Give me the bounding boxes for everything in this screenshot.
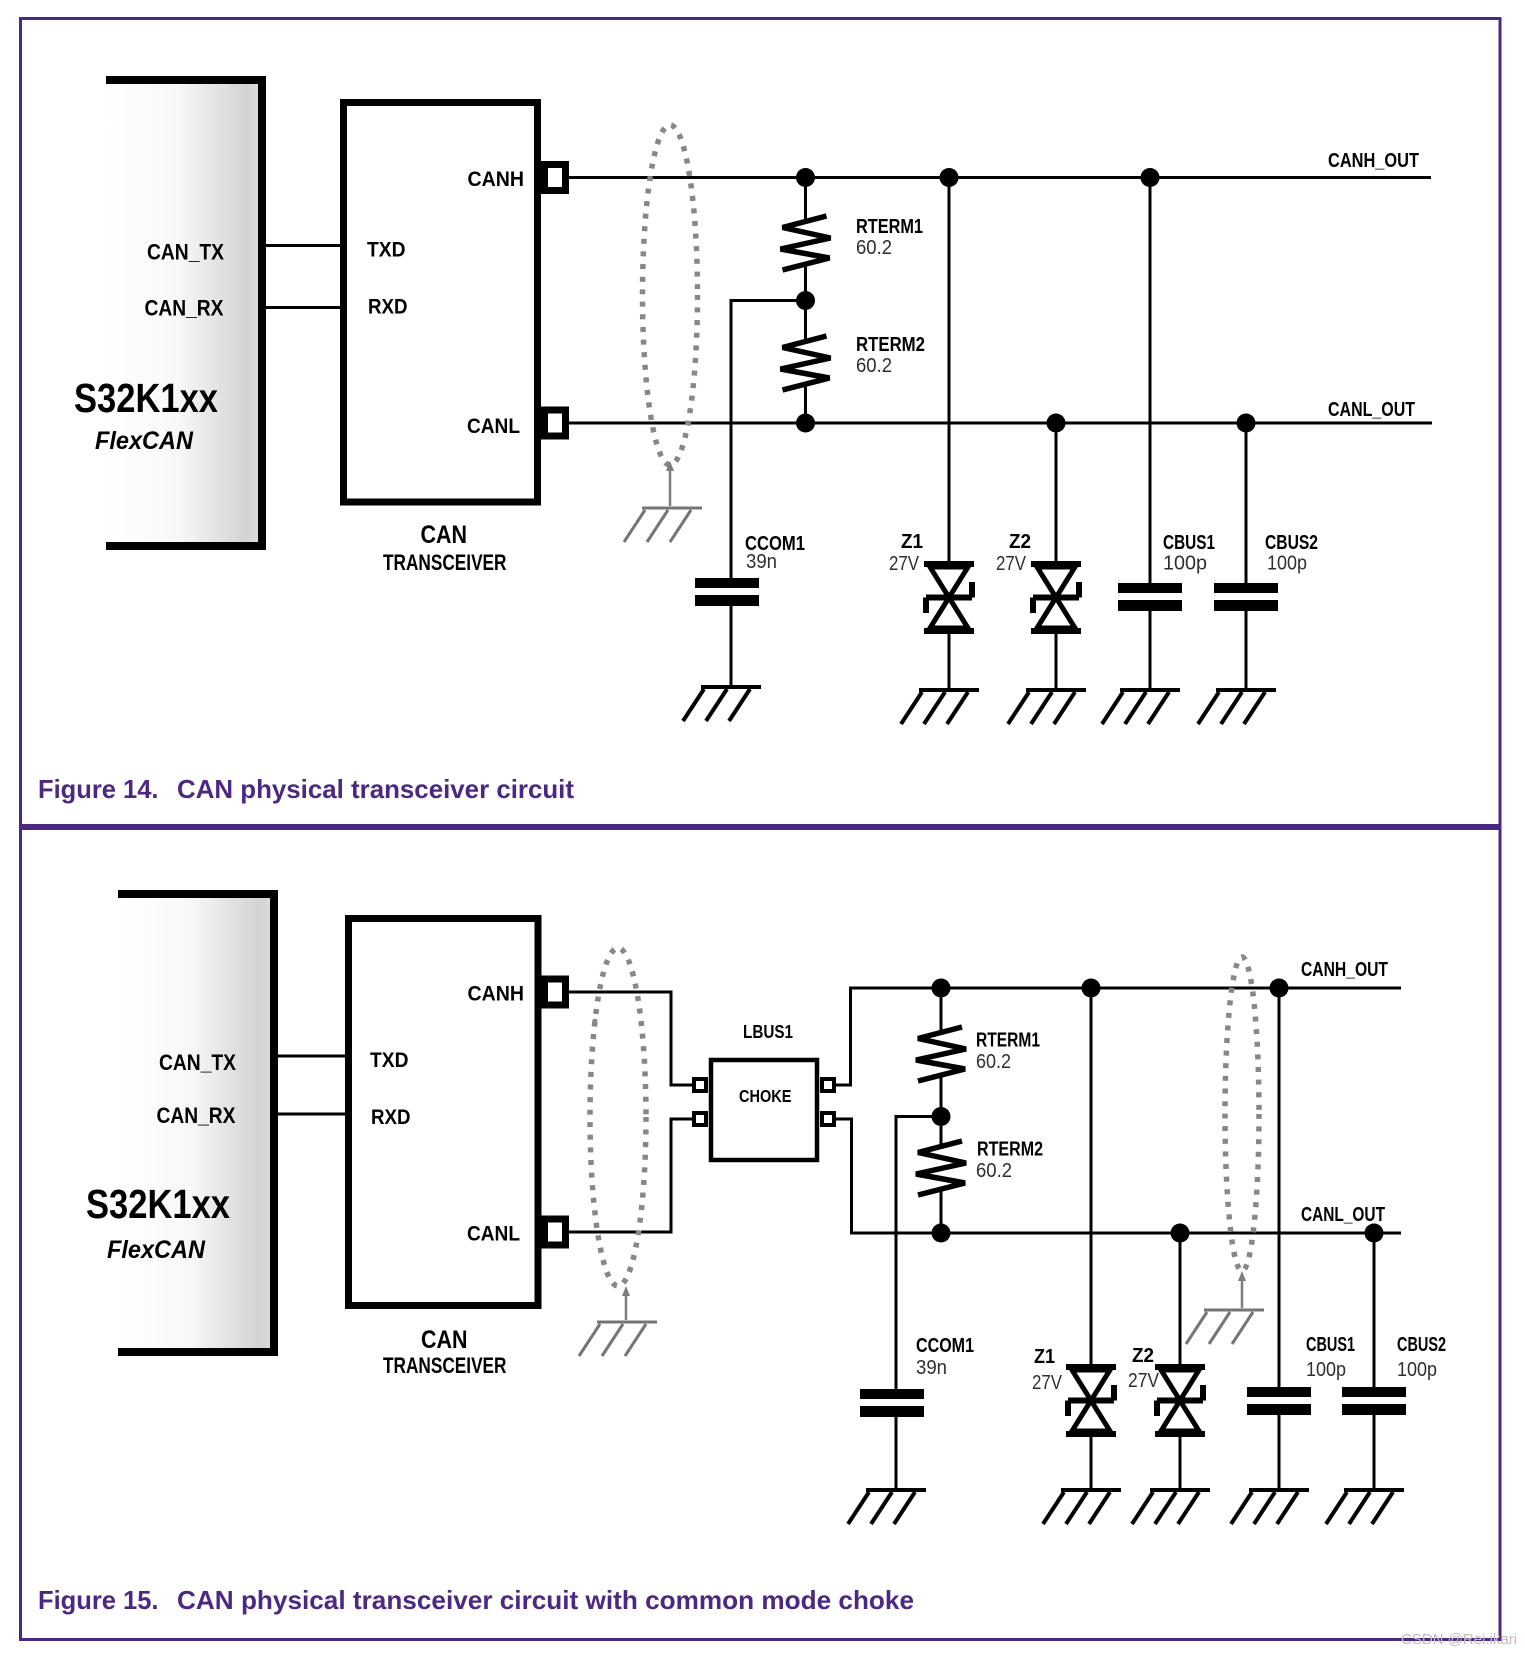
svg-text:CAN_RX: CAN_RX: [157, 1103, 236, 1128]
node CANL-Z2 junction: [1171, 1224, 1190, 1243]
svg-text:Figure 15.: Figure 15.: [38, 1585, 159, 1615]
resistor RTERM2: [781, 301, 926, 424]
wire CAN_RX to RXD: [266, 306, 344, 309]
figure 15 caption: [38, 1585, 914, 1615]
TVS diode Z2: [1128, 1345, 1205, 1434]
svg-text:CAN_TX: CAN_TX: [159, 1050, 236, 1075]
node RTERM1-RTERM2 junction: [932, 1107, 951, 1126]
svg-text:Z2: Z2: [1132, 1345, 1154, 1367]
wire CANH to CBUS1: [1278, 988, 1281, 1387]
ground CBUS2: [1326, 1490, 1404, 1524]
node CANH-RTERM1 junction: [796, 168, 815, 187]
ground CBUS2: [1198, 690, 1276, 724]
common mode choke LBUS1: [694, 1022, 834, 1160]
wire Z2 to ground: [1055, 631, 1058, 690]
svg-text:CANH_OUT: CANH_OUT: [1301, 959, 1388, 981]
MCU U1 S32K1xx block: [74, 76, 266, 550]
svg-text:Z1: Z1: [901, 531, 923, 553]
CANH pin pad: [545, 165, 566, 191]
svg-text:Figure 14.: Figure 14.: [38, 774, 159, 804]
svg-text:CANH: CANH: [468, 983, 525, 1006]
svg-text:RTERM1: RTERM1: [976, 1030, 1040, 1052]
svg-text:RTERM2: RTERM2: [977, 1139, 1043, 1161]
wire CBUS1 to ground: [1149, 611, 1152, 690]
capacitor CCOM1: [695, 533, 805, 606]
wire CANL to Z2: [1179, 1233, 1182, 1367]
cable shield ellipse right: [1225, 957, 1259, 1271]
capacitor CBUS2: [1342, 1334, 1446, 1415]
wire CANL to CBUS2: [1373, 1233, 1376, 1387]
CANH pin pad: [545, 979, 566, 1005]
wire CBUS2 to ground: [1245, 611, 1248, 690]
wire CAN_TX to TXD: [266, 244, 344, 247]
MCU U3 S32K1xx block: [86, 890, 278, 1356]
ground Z1: [1043, 1490, 1121, 1524]
svg-text:RXD: RXD: [371, 1106, 411, 1129]
wire Z1 to ground: [948, 631, 951, 690]
wire CCOM1 to ground: [730, 606, 733, 687]
svg-text:CANH: CANH: [468, 168, 525, 191]
shield ground left: [579, 1322, 657, 1356]
svg-text:RXD: RXD: [368, 296, 408, 319]
ground Z1: [901, 690, 979, 724]
wire choke to CANH_OUT: [835, 988, 1401, 1085]
svg-text:27V: 27V: [889, 553, 920, 575]
svg-text:27V: 27V: [996, 553, 1027, 575]
svg-text:CCOM1: CCOM1: [916, 1335, 974, 1357]
svg-text:27V: 27V: [1032, 1372, 1063, 1394]
svg-text:27V: 27V: [1128, 1370, 1160, 1392]
node RTERM2-CANL junction: [932, 1224, 951, 1243]
ground CCOM1: [683, 687, 761, 721]
shield drain wire: [666, 461, 674, 506]
ground CBUS1: [1231, 1490, 1309, 1524]
svg-text:39n: 39n: [916, 1357, 947, 1379]
svg-text:CBUS2: CBUS2: [1265, 532, 1318, 554]
node CANL-CBUS2 junction: [1237, 414, 1256, 433]
wire CANL to choke: [569, 1119, 693, 1232]
figure 14 caption: [38, 774, 574, 804]
resistor RTERM2: [916, 1117, 1043, 1234]
svg-text:CAN: CAN: [421, 521, 468, 549]
wire split point to CCOM1: [731, 299, 806, 578]
wire CBUS2 to ground: [1373, 1415, 1376, 1490]
svg-text:CHOKE: CHOKE: [739, 1086, 792, 1106]
svg-text:CANL: CANL: [467, 415, 520, 438]
figure 14 frame: [21, 19, 1501, 826]
svg-text:CANH_OUT: CANH_OUT: [1328, 150, 1419, 172]
wire CANL to CBUS2: [1245, 423, 1248, 583]
svg-text:100p: 100p: [1397, 1359, 1437, 1381]
wire CBUS1 to ground: [1278, 1415, 1281, 1490]
svg-text:RTERM1: RTERM1: [856, 216, 923, 238]
svg-text:CAN: CAN: [421, 1326, 468, 1354]
svg-text:60.2: 60.2: [856, 237, 892, 259]
wire Z2 to ground: [1179, 1434, 1182, 1490]
wire CANL to Z2: [1055, 423, 1058, 564]
ground CBUS1: [1102, 690, 1180, 724]
wire CANH to choke: [569, 992, 693, 1085]
svg-text:60.2: 60.2: [976, 1160, 1012, 1182]
ground Z2: [1132, 1490, 1210, 1524]
svg-text:39n: 39n: [746, 551, 777, 573]
svg-text:100p: 100p: [1267, 553, 1307, 575]
ground CCOM1: [848, 1490, 926, 1524]
TVS diode Z2: [996, 531, 1081, 631]
ground Z2: [1008, 690, 1086, 724]
node CANL-CBUS2 junction: [1365, 1224, 1384, 1243]
svg-text:CANL_OUT: CANL_OUT: [1301, 1204, 1385, 1226]
shield drain wire right: [1238, 1271, 1246, 1308]
node CANH-CBUS1 junction: [1270, 979, 1289, 998]
wire CAN_TX to TXD: [278, 1055, 352, 1058]
resistor RTERM1: [781, 178, 924, 301]
svg-text:RTERM2: RTERM2: [856, 334, 925, 356]
svg-text:TXD: TXD: [370, 1049, 409, 1072]
cable shield ellipse: [643, 125, 698, 465]
svg-text:Z1: Z1: [1034, 1346, 1055, 1368]
svg-text:60.2: 60.2: [856, 355, 892, 377]
svg-text:CBUS1: CBUS1: [1163, 532, 1215, 554]
figure 15 frame: [21, 829, 1501, 1640]
svg-text:60.2: 60.2: [976, 1051, 1011, 1073]
wire Z1 to ground: [1090, 1434, 1093, 1490]
wire CAN_RX to RXD: [278, 1113, 352, 1116]
svg-text:FlexCAN: FlexCAN: [107, 1236, 206, 1264]
svg-text:FlexCAN: FlexCAN: [95, 427, 194, 455]
svg-text:CAN physical transceiver circu: CAN physical transceiver circuit with co…: [177, 1585, 914, 1615]
svg-text:Z2: Z2: [1009, 531, 1031, 553]
svg-text:CANL_OUT: CANL_OUT: [1328, 399, 1415, 421]
wire CCOM1 to ground: [895, 1417, 898, 1490]
shield drain wire left: [622, 1286, 630, 1320]
svg-text:CBUS2: CBUS2: [1397, 1334, 1446, 1356]
TVS diode Z1: [889, 531, 974, 631]
cable shield ellipse left: [590, 948, 646, 1286]
svg-text:100p: 100p: [1306, 1359, 1346, 1381]
svg-text:S32K1xx: S32K1xx: [74, 375, 218, 421]
svg-text:CANL: CANL: [467, 1223, 520, 1246]
svg-text:TRANSCEIVER: TRANSCEIVER: [383, 1353, 507, 1378]
resistor RTERM1: [916, 988, 1040, 1117]
svg-text:TRANSCEIVER: TRANSCEIVER: [383, 550, 507, 575]
capacitor CBUS2: [1214, 532, 1318, 611]
shield ground right: [1186, 1310, 1264, 1344]
svg-text:CBUS1: CBUS1: [1306, 1334, 1355, 1356]
node CANH-Z1 junction: [940, 168, 959, 187]
CAN transceiver U2 box: [344, 103, 538, 576]
wire CANH to Z1: [1090, 988, 1093, 1367]
wire CANL bus: [569, 422, 1432, 425]
node CANH-RTERM1 junction: [932, 979, 951, 998]
wire CANH bus: [569, 176, 1431, 179]
capacitor CCOM1: [860, 1335, 974, 1417]
svg-text:CAN_RX: CAN_RX: [145, 296, 224, 321]
node CANL-Z2 junction: [1047, 414, 1066, 433]
node RTERM2-CANL junction: [796, 414, 815, 433]
wire choke to CANL_OUT: [835, 1119, 1401, 1233]
svg-text:TXD: TXD: [367, 239, 406, 262]
node CANH-Z1 junction: [1082, 979, 1101, 998]
shield ground: [624, 508, 702, 542]
svg-text:CSDN @Rei.ikari: CSDN @Rei.ikari: [1401, 1631, 1517, 1648]
svg-text:CAN_TX: CAN_TX: [147, 240, 224, 265]
svg-text:LBUS1: LBUS1: [743, 1022, 793, 1042]
capacitor CBUS1: [1247, 1334, 1355, 1415]
wire CANH to Z1: [948, 178, 951, 565]
CAN transceiver U4 box: [349, 919, 539, 1379]
svg-text:S32K1xx: S32K1xx: [86, 1181, 230, 1227]
node CANH-CBUS1 junction: [1141, 168, 1160, 187]
svg-text:100p: 100p: [1163, 553, 1207, 575]
wire CANH to CBUS1: [1149, 178, 1152, 584]
CANL pin pad: [545, 1219, 566, 1245]
capacitor CBUS1: [1118, 532, 1215, 611]
node RTERM1-RTERM2 junction: [796, 291, 815, 310]
wire split point to CCOM1: [896, 1115, 941, 1389]
svg-text:CAN physical transceiver circu: CAN physical transceiver circuit: [177, 774, 574, 804]
TVS diode Z1: [1032, 1346, 1116, 1434]
CANL pin pad: [545, 410, 566, 436]
